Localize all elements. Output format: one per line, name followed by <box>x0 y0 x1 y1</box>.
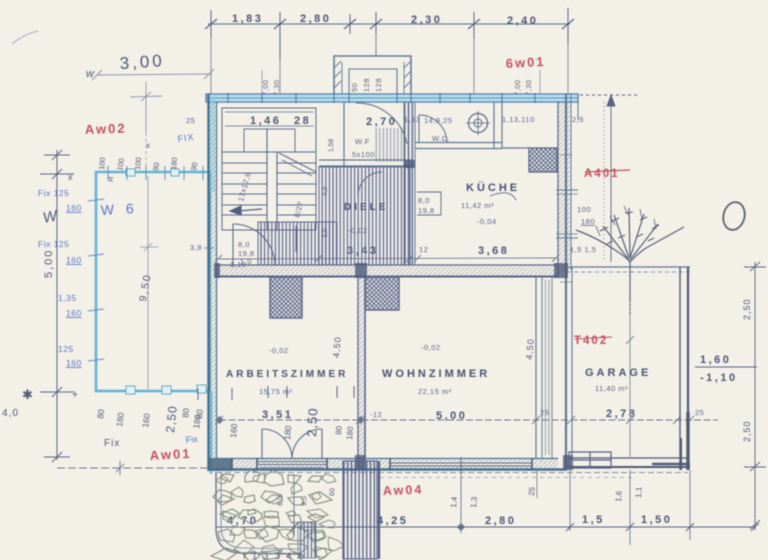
svg-text:6w01: 6w01 <box>505 54 546 71</box>
separating wall hatch fill <box>358 277 365 458</box>
svg-text:Aw01: Aw01 <box>149 446 191 463</box>
svg-text:GARAGE: GARAGE <box>585 367 651 379</box>
garage left wall <box>571 267 573 458</box>
small circle O mark right <box>720 200 747 232</box>
svg-text:28: 28 <box>294 115 311 127</box>
arbeitszimmer french door arcs <box>262 429 322 459</box>
building left wall <box>209 94 217 471</box>
svg-text:4,0: 4,0 <box>2 408 19 419</box>
svg-text:1,60: 1,60 <box>700 354 731 366</box>
top dimension chain line <box>205 8 574 60</box>
dashed ground line below south wall <box>216 472 688 474</box>
svg-text:100: 100 <box>577 205 591 214</box>
blue rotated sill numbers above terrace <box>97 157 199 182</box>
svg-text:160: 160 <box>66 203 82 213</box>
svg-text:Fix: Fix <box>104 438 120 449</box>
cyan tint on upper left wall <box>209 96 215 192</box>
svg-text:180: 180 <box>581 217 595 226</box>
far right vertical dim x=755 <box>744 262 766 530</box>
svg-text:1,5 1,5: 1,5 1,5 <box>570 245 596 254</box>
corridor door arc <box>233 224 275 266</box>
svg-text:90: 90 <box>189 162 199 172</box>
left vertical dimension line 5,00 <box>40 150 74 462</box>
faint corner scribble top-left <box>12 31 38 44</box>
svg-text:125: 125 <box>58 344 74 354</box>
vertical drop guides from top chain <box>211 34 568 94</box>
svg-text:2,50: 2,50 <box>742 420 752 442</box>
pebble stones field <box>211 470 332 560</box>
svg-text:3,68: 3,68 <box>478 245 509 257</box>
svg-text:1,1: 1,1 <box>634 486 644 498</box>
bay wall ticks <box>334 61 411 94</box>
south wall hatch fill <box>216 459 558 470</box>
svg-text:180: 180 <box>191 414 203 430</box>
garage top wall <box>560 267 690 272</box>
svg-text:2,70: 2,70 <box>366 116 397 128</box>
entrance door swing into W.F <box>356 103 407 144</box>
svg-text:8,0: 8,0 <box>277 496 285 506</box>
staircase block <box>222 108 316 230</box>
blue ticks on terrace left edge <box>88 199 104 361</box>
wohnzimmer right inner wall lines <box>536 277 552 458</box>
guide from 3,00 line to terrace <box>130 82 162 168</box>
svg-text:180: 180 <box>114 412 126 428</box>
junction ink blobs <box>214 160 573 470</box>
right side vertical dim line x=611 <box>580 95 640 262</box>
svg-text:11,42 m²: 11,42 m² <box>461 201 494 210</box>
svg-text:2,30: 2,30 <box>411 14 442 26</box>
tick marks on terrace top edge <box>108 166 203 180</box>
extra pebble stones <box>216 474 344 558</box>
kitchen chimney block <box>529 148 557 172</box>
svg-text:25: 25 <box>695 408 704 417</box>
svg-text:-1,10: -1,10 <box>700 372 738 384</box>
svg-text:x: x <box>68 172 73 182</box>
dark SW corner block <box>208 458 232 471</box>
svg-text:5,00: 5,00 <box>43 249 55 278</box>
pebble path border bottom-left <box>216 472 302 554</box>
svg-text:160: 160 <box>140 413 152 429</box>
terrace W6 cyan outline <box>96 172 210 391</box>
garage south wall <box>567 458 690 467</box>
rotated small labels in path <box>277 488 336 506</box>
svg-text:WOHNZIMMER: WOHNZIMMER <box>382 368 490 380</box>
W.C. room walls <box>415 102 502 149</box>
svg-text:2,50: 2,50 <box>163 405 180 434</box>
kitchen window ticks on right wall <box>556 155 578 282</box>
svg-text:4,25: 4,25 <box>377 515 408 527</box>
chimney block below stairs <box>270 277 302 318</box>
W.F/diele hatched wall band <box>404 102 415 265</box>
svg-text:2,80: 2,80 <box>300 13 331 25</box>
svg-text:-0,04: -0,04 <box>477 217 497 226</box>
door arc W.F to DIELE <box>358 172 382 196</box>
bush symbol <box>576 206 684 316</box>
svg-text:60: 60 <box>329 488 336 496</box>
kitchen top short wall <box>502 147 529 149</box>
entrance bay outer <box>334 56 411 94</box>
svg-text:T402: T402 <box>574 335 608 347</box>
svg-text:+: + <box>72 390 78 401</box>
arbeitszimmer door sill lines <box>257 462 327 468</box>
svg-text:1,4: 1,4 <box>449 496 459 508</box>
svg-text:KÜCHE: KÜCHE <box>466 181 520 194</box>
svg-text:80: 80 <box>151 162 161 172</box>
svg-text:1,0: 1,0 <box>240 257 252 266</box>
svg-text:180: 180 <box>282 425 293 440</box>
south wall window lines (wohnzimmer) <box>390 457 532 471</box>
svg-text:19,8: 19,8 <box>418 206 435 215</box>
svg-text:I 1 3 3 4 I: I 1 3 3 4 I <box>243 551 303 560</box>
blue window schedule labels Fix 125/160 column <box>38 188 82 368</box>
garage interior guide <box>629 272 631 458</box>
main cross wall <box>216 265 558 277</box>
svg-text:180: 180 <box>345 426 355 441</box>
svg-text:2,50: 2,50 <box>304 407 321 437</box>
svg-text:14,9,25: 14,9,25 <box>424 116 453 125</box>
svg-text:3,00: 3,00 <box>119 51 165 73</box>
main cross wall hatch fill <box>216 265 558 277</box>
svg-text:1,13,110: 1,13,110 <box>502 115 535 124</box>
svg-text:Fix 125: Fix 125 <box>38 239 69 249</box>
stair walking-line arrow <box>230 206 296 252</box>
svg-text:4,0: 4,0 <box>322 186 329 196</box>
svg-text:3,51: 3,51 <box>262 409 293 421</box>
3,00 dimension line <box>92 69 214 80</box>
svg-text:100: 100 <box>133 157 143 170</box>
interior dim row y=420 <box>215 416 718 424</box>
blue rotated labels below terrace <box>334 425 355 440</box>
svg-text:2,78: 2,78 <box>606 408 637 420</box>
svg-text:2,50: 2,50 <box>742 298 752 320</box>
tick marks under terrace bottom edge <box>198 386 354 400</box>
svg-text:ARBEITSZIMMER: ARBEITSZIMMER <box>226 369 348 380</box>
svg-text:Aw02: Aw02 <box>85 121 127 137</box>
svg-text:8,0: 8,0 <box>238 240 250 249</box>
chimney block wohnzimmer corner <box>365 277 399 310</box>
W.C. door arc <box>419 115 447 143</box>
svg-text:160: 160 <box>66 255 82 265</box>
svg-text:-0,02: -0,02 <box>269 346 289 355</box>
garage right wall <box>680 267 688 470</box>
svg-text:50: 50 <box>350 83 359 92</box>
rotated labels under terrace <box>95 408 293 440</box>
svg-text:80: 80 <box>334 425 344 435</box>
cellar stair strip right heavy edge <box>378 461 380 559</box>
under-stair corridor hatched <box>258 222 337 265</box>
svg-text:DIELE: DIELE <box>344 202 388 213</box>
svg-text:128: 128 <box>374 78 383 92</box>
rotated labels DIELE left edge <box>322 139 335 238</box>
garage entry steps SW corner <box>569 452 611 468</box>
terrace centre guide line <box>140 176 158 389</box>
blue rotated 80/180 under terrace right <box>180 407 203 429</box>
windfang W.F room walls <box>319 102 413 166</box>
svg-text:1,6: 1,6 <box>614 490 624 502</box>
svg-text:-12: -12 <box>370 410 382 419</box>
exterior cellar stair hatched strip <box>343 461 377 559</box>
guide line in path <box>293 474 295 520</box>
svg-text:1,46: 1,46 <box>250 115 281 127</box>
svg-text:25: 25 <box>527 486 537 496</box>
bottom-left outside dim line <box>57 461 210 475</box>
svg-text:25: 25 <box>540 408 549 417</box>
svg-text:180: 180 <box>169 157 179 170</box>
left wall hatch fill <box>209 102 217 458</box>
cyan wall stub below terrace <box>210 391 213 474</box>
svg-text:1,5: 1,5 <box>582 514 605 526</box>
svg-text:11,40 m²: 11,40 m² <box>595 384 628 393</box>
svg-text:2,5: 2,5 <box>572 115 584 124</box>
terrace edge small squares <box>126 169 206 394</box>
svg-text:1,35: 1,35 <box>58 293 77 303</box>
building south wall <box>208 459 567 470</box>
svg-text:W.F: W.F <box>355 137 370 146</box>
svg-text:128: 128 <box>362 78 371 92</box>
bottom dimension line <box>216 518 759 536</box>
svg-text:8,0: 8,0 <box>418 196 430 205</box>
building top wall cyan band <box>206 94 578 102</box>
wall between arbeitszimmer and wohnzimmer <box>358 277 365 458</box>
svg-text:22,15 m²: 22,15 m² <box>418 387 452 396</box>
svg-text:15,75 m²: 15,75 m² <box>259 387 293 396</box>
svg-text:80: 80 <box>180 407 191 418</box>
building right wall upper <box>558 94 578 470</box>
svg-text:✱: ✱ <box>22 387 33 402</box>
svg-text:160: 160 <box>228 423 239 438</box>
svg-text:1,58: 1,58 <box>328 139 335 152</box>
svg-text:5x100: 5x100 <box>352 150 375 159</box>
svg-text:4,50: 4,50 <box>524 338 536 360</box>
svg-text:W 6: W 6 <box>100 200 138 218</box>
svg-text:2,40: 2,40 <box>507 15 538 27</box>
door jamb ticks in south wall <box>232 458 532 470</box>
svg-text:160: 160 <box>66 308 82 318</box>
svg-text:A401: A401 <box>584 168 620 180</box>
svg-text:80: 80 <box>95 408 106 419</box>
svg-text:1,50: 1,50 <box>641 514 672 526</box>
small hatched steps strip in path <box>298 522 316 558</box>
svg-text:Aw04: Aw04 <box>383 483 424 498</box>
svg-text:1,13: 1,13 <box>404 115 421 124</box>
vertical guides below building <box>457 470 690 545</box>
interior dim row above cross wall <box>215 255 559 262</box>
svg-text:5,00: 5,00 <box>436 410 467 422</box>
right side dim line x=604 <box>603 102 605 262</box>
svg-text:1,3: 1,3 <box>469 496 479 508</box>
svg-text:W.C.: W.C. <box>432 134 450 143</box>
W.C. toilet <box>469 114 488 133</box>
DIELE hatched hall <box>319 167 410 265</box>
svg-text:Fix 125: Fix 125 <box>38 188 69 198</box>
svg-text:x: x <box>146 141 150 150</box>
svg-text:3,0: 3,0 <box>322 228 329 238</box>
svg-text:-0,02: -0,02 <box>421 343 441 352</box>
svg-text:100: 100 <box>97 157 107 170</box>
svg-text:25: 25 <box>186 116 195 125</box>
svg-text:9,0: 9,0 <box>301 496 309 506</box>
kitchen counter marks <box>417 192 516 215</box>
top wall window ticks <box>228 93 535 103</box>
svg-text:160: 160 <box>66 358 82 368</box>
svg-text:3,8: 3,8 <box>190 243 202 252</box>
right wall hatch fill <box>558 102 570 270</box>
svg-text:1,83: 1,83 <box>232 13 263 25</box>
svg-text:Fix: Fix <box>185 434 198 445</box>
svg-text:4,50: 4,50 <box>331 336 343 358</box>
svg-text:-0,02: -0,02 <box>348 226 368 235</box>
svg-text:2,80: 2,80 <box>485 515 516 527</box>
svg-text:12: 12 <box>419 245 428 254</box>
